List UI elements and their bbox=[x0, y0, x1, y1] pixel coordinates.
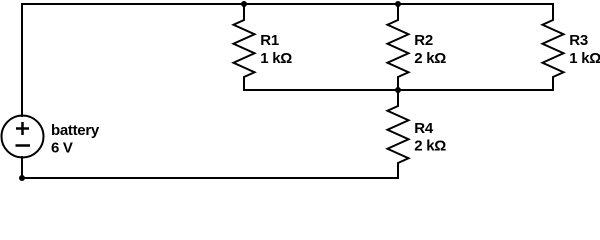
node R1 top junction bbox=[241, 1, 247, 7]
svg-text:R1: R1 bbox=[260, 32, 279, 49]
wire battery - to bottom net bbox=[21, 157, 23, 178]
svg-text:2 kΩ: 2 kΩ bbox=[414, 137, 446, 154]
resistor R4 bbox=[388, 90, 409, 178]
node R2 top junction bbox=[395, 1, 401, 7]
svg-text:battery: battery bbox=[51, 122, 100, 139]
svg-text:6 V: 6 V bbox=[51, 139, 73, 156]
wire middle net R1 to R3 bbox=[244, 89, 553, 91]
node battery negative junction bbox=[19, 175, 25, 181]
battery V1 circle bbox=[2, 116, 44, 158]
wire top net from battery + to R3 bbox=[22, 3, 553, 5]
svg-text:R3: R3 bbox=[569, 32, 588, 49]
node R2 bottom / R4 top junction bbox=[395, 87, 401, 93]
wire bottom net to R4 bbox=[22, 177, 398, 179]
resistor R3 bbox=[543, 4, 564, 90]
svg-text:R4: R4 bbox=[414, 120, 434, 137]
svg-text:1 kΩ: 1 kΩ bbox=[260, 50, 292, 67]
svg-text:1 kΩ: 1 kΩ bbox=[569, 50, 600, 67]
battery plus sign bbox=[16, 122, 29, 135]
resistor R1 bbox=[234, 4, 255, 90]
wire left vertical battery to top net bbox=[21, 4, 23, 116]
svg-text:2 kΩ: 2 kΩ bbox=[414, 50, 446, 67]
svg-text:R2: R2 bbox=[414, 32, 433, 49]
battery minus sign bbox=[16, 144, 31, 147]
resistor R2 bbox=[388, 4, 409, 90]
